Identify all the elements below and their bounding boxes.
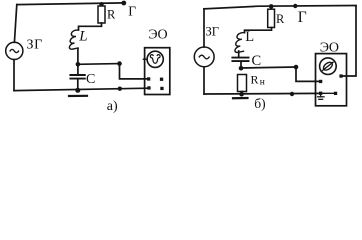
wire L-bottom to C b [238,51,240,57]
generator ЗГ tilde a [10,49,19,52]
svg-text:C: C [86,72,95,87]
svg-text:б): б) [254,96,265,111]
terminal square bottom-left a [147,86,150,89]
generator ЗГ circle b [194,47,214,67]
wire left vertical a (generator top lead) [14,5,16,43]
svg-text:ЭО: ЭО [148,28,167,43]
node dot on bottom rail b [290,92,294,96]
wire scope branch down-right b [296,67,321,81]
scope screen circle b [320,58,337,75]
oscilloscope ЭО box b [316,54,347,106]
scope screen ellipse trace b [321,60,335,73]
ground symbol inside box b [320,93,322,96]
node junction R-top a [99,2,103,6]
wire node to scope-branch b [241,67,296,68]
wire jumper between bottom terminals b [321,92,336,94]
node C-Rн junction b [239,66,244,71]
wire C-bottom to node b [240,62,242,69]
wire generator top lead b [203,9,205,47]
capacitor C b top plate [232,57,248,59]
wire node to C-top a [77,64,79,74]
node junction R-top b [269,4,274,9]
svg-text:R: R [251,73,259,87]
wire top rail b [204,6,356,9]
svg-text:Г: Г [298,9,307,26]
resistor R b [268,9,275,27]
wire bottom rail a [14,88,149,90]
terminal square top-left b [319,80,322,83]
resistor Rн b [238,75,247,92]
terminal square top-left a [147,77,150,80]
generator ЗГ circle a [6,42,23,59]
terminal square bottom-right a [160,87,163,90]
ground bar a [69,95,87,97]
node scope-branch dot b [294,65,299,70]
wire R-bottom to L-top a [79,23,102,30]
capacitor C a bottom plate [70,78,84,80]
wire top rail down right side b [342,6,357,76]
wire scope branch down-right a [120,64,149,79]
inductor L a (coil) [69,30,78,49]
generator ЗГ tilde b [199,55,209,59]
inductor L b (coil) [235,33,245,53]
terminal square top-right a [160,78,163,81]
node LC junction a [76,62,81,67]
node Rн-bottom junction b [239,92,244,97]
capacitor C a top plate [70,74,84,76]
svg-text:C: C [252,53,262,69]
node dot on bottom rail a [118,87,122,91]
terminal square bottom-right b [334,92,337,95]
wire generator bottom lead a [13,60,15,91]
svg-text:а): а) [107,99,118,114]
knob tick on box edge a [143,58,147,60]
wire L-bottom to node a [77,49,79,65]
wire top rail a [17,3,124,5]
wire generator bottom lead b [203,67,205,94]
svg-text:L: L [245,29,254,45]
node Г point b [293,4,297,8]
svg-text:L: L [78,28,87,44]
ground bar b [233,97,248,99]
node C-bottom junction a [75,88,80,93]
svg-text:R: R [276,12,285,26]
wire bottom rail b [204,92,321,95]
node scope-branch dot a [117,61,122,66]
wire C-bottom to rail a [77,79,79,90]
svg-text:ЗГ: ЗГ [27,38,43,53]
wire node to scope-branch a [78,63,120,66]
resistor R a [98,6,105,23]
wire Rн-bottom to rail b [241,92,243,95]
scope screen circle a [147,51,163,67]
scope screen trace a [150,55,160,64]
terminal square bottom-left b [319,92,322,95]
svg-text:Г: Г [128,4,136,19]
svg-text:R: R [107,7,116,21]
terminal square top-right b [339,74,342,77]
svg-text:ЗГ: ЗГ [206,24,220,38]
capacitor C b bottom plate [232,60,248,62]
oscilloscope ЭО box a [145,48,170,95]
svg-text:ЭО: ЭО [320,40,339,55]
svg-text:н: н [260,78,265,88]
node Г terminal a [121,1,126,6]
wire R-bottom to L-top b [245,28,272,33]
